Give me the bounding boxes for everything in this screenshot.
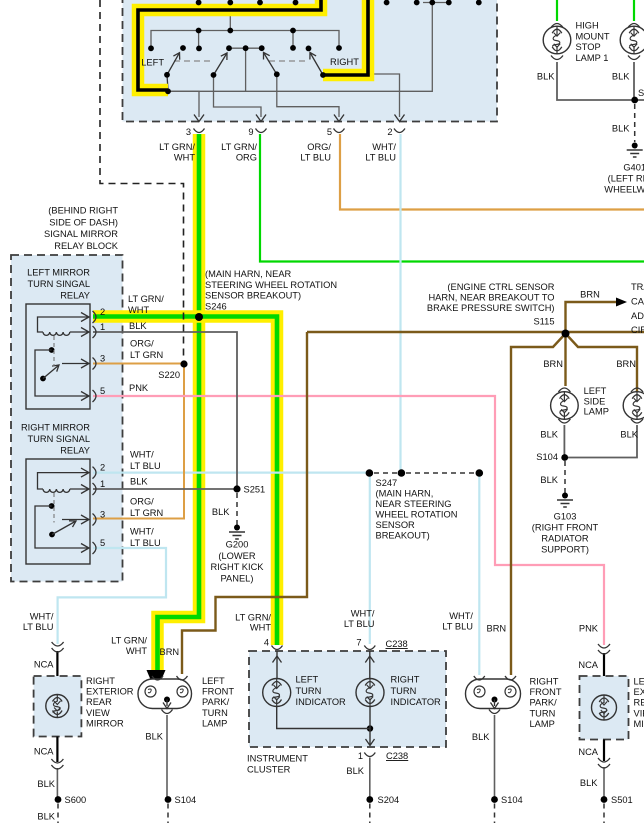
svg-text:ORG: ORG	[236, 153, 257, 163]
svg-text:MIRROR: MIRROR	[86, 718, 124, 728]
svg-text:LEFT MIRROR: LEFT MIRROR	[27, 268, 90, 278]
svg-text:CIRCUITS: CIRCUITS	[631, 325, 644, 335]
svg-text:BRN: BRN	[543, 359, 563, 369]
svg-text:CAMPER: CAMPER	[631, 296, 644, 306]
svg-text:WHT/: WHT/	[30, 612, 54, 622]
svg-text:BLK: BLK	[537, 72, 555, 82]
svg-text:RIGHT MIRROR: RIGHT MIRROR	[21, 423, 90, 433]
svg-text:BRN: BRN	[616, 359, 636, 369]
svg-text:NCA: NCA	[578, 747, 598, 757]
svg-text:NCA: NCA	[34, 660, 54, 670]
svg-text:3: 3	[186, 127, 191, 137]
svg-text:S104: S104	[175, 795, 197, 805]
svg-text:PNK: PNK	[579, 624, 599, 634]
svg-text:LT GRN: LT GRN	[130, 508, 163, 518]
svg-text:PNK: PNK	[129, 383, 149, 393]
svg-text:S: S	[638, 88, 644, 98]
svg-text:BLK: BLK	[580, 778, 598, 788]
svg-text:TURN SINGAL: TURN SINGAL	[27, 279, 90, 289]
svg-text:TURN: TURN	[530, 708, 556, 718]
svg-text:BRN: BRN	[580, 290, 600, 300]
svg-text:LEFT: LEFT	[584, 386, 607, 396]
svg-text:LT BLU: LT BLU	[23, 622, 54, 632]
svg-text:(BEHIND RIGHT: (BEHIND RIGHT	[48, 206, 118, 216]
svg-text:SENSOR: SENSOR	[376, 520, 416, 530]
svg-text:SIDE: SIDE	[584, 396, 606, 406]
svg-text:RIGHT KICK: RIGHT KICK	[210, 562, 264, 572]
svg-text:SIGNAL MIRROR: SIGNAL MIRROR	[44, 229, 118, 239]
svg-text:C238: C238	[386, 751, 408, 761]
svg-text:RELAY: RELAY	[60, 446, 90, 456]
svg-text:9: 9	[248, 127, 253, 137]
svg-text:(LEFT REAR: (LEFT REAR	[608, 174, 644, 184]
svg-text:2: 2	[387, 127, 392, 137]
svg-text:S104: S104	[536, 452, 558, 462]
svg-text:RIGHT: RIGHT	[330, 57, 359, 67]
svg-text:WHT/: WHT/	[130, 527, 154, 537]
svg-text:RIGHT: RIGHT	[391, 675, 420, 685]
svg-text:VIEW: VIEW	[634, 708, 644, 718]
svg-text:RIGHT: RIGHT	[530, 677, 559, 687]
svg-text:LT BLU: LT BLU	[300, 153, 331, 163]
svg-text:REAR: REAR	[634, 698, 644, 708]
svg-text:FRONT: FRONT	[202, 687, 234, 697]
svg-text:RELAY BLOCK: RELAY BLOCK	[54, 241, 119, 251]
svg-text:3: 3	[100, 354, 105, 364]
svg-text:LAMP: LAMP	[584, 407, 609, 417]
svg-text:S600: S600	[65, 795, 87, 805]
svg-text:VIEW: VIEW	[86, 708, 110, 718]
svg-text:S204: S204	[378, 795, 400, 805]
svg-text:S104: S104	[501, 795, 523, 805]
svg-text:1: 1	[100, 479, 105, 489]
svg-text:ORG/: ORG/	[130, 339, 154, 349]
svg-text:S115: S115	[533, 317, 554, 327]
svg-text:STEERING WHEEL ROTATION: STEERING WHEEL ROTATION	[205, 280, 337, 290]
svg-text:INDICATOR: INDICATOR	[296, 697, 347, 707]
svg-text:WHT: WHT	[174, 153, 195, 163]
svg-text:BLK: BLK	[212, 507, 230, 517]
svg-text:BRAKE PRESSURE SWITCH): BRAKE PRESSURE SWITCH)	[427, 303, 555, 313]
svg-text:S247: S247	[376, 478, 398, 488]
svg-text:LT BLU: LT BLU	[130, 538, 161, 548]
svg-text:LT GRN/: LT GRN/	[221, 142, 257, 152]
svg-text:BLK: BLK	[540, 430, 558, 440]
svg-text:LAMP: LAMP	[202, 718, 227, 728]
svg-text:BLK: BLK	[129, 321, 147, 331]
svg-text:1: 1	[100, 322, 105, 332]
svg-text:ORG/: ORG/	[307, 142, 331, 152]
svg-text:G401: G401	[623, 163, 644, 173]
svg-text:BLK: BLK	[620, 430, 638, 440]
svg-text:S220: S220	[158, 370, 180, 380]
svg-text:PARK/: PARK/	[530, 698, 558, 708]
svg-text:NCA: NCA	[34, 747, 54, 757]
svg-text:TURN: TURN	[391, 686, 417, 696]
svg-text:TRAILER: TRAILER	[631, 282, 644, 292]
svg-text:LT BLU: LT BLU	[365, 153, 396, 163]
svg-text:LT BLU: LT BLU	[344, 619, 375, 629]
svg-text:WHT: WHT	[128, 305, 149, 315]
svg-text:EXTERIOR: EXTERIOR	[634, 687, 644, 697]
svg-text:BLK: BLK	[37, 779, 55, 789]
svg-text:BLK: BLK	[612, 124, 630, 134]
svg-text:(LOWER: (LOWER	[218, 551, 255, 561]
svg-text:G200: G200	[226, 540, 249, 550]
svg-text:LAMP: LAMP	[530, 719, 555, 729]
svg-text:WHT/: WHT/	[449, 611, 473, 621]
svg-text:WHT/: WHT/	[351, 609, 375, 619]
svg-text:LT GRN/: LT GRN/	[235, 613, 271, 623]
svg-text:5: 5	[100, 538, 105, 548]
svg-text:S246: S246	[205, 301, 227, 311]
svg-text:LEFT: LEFT	[634, 677, 644, 687]
svg-text:BLK: BLK	[145, 732, 163, 742]
svg-text:BREAKOUT): BREAKOUT)	[376, 531, 430, 541]
svg-text:INDICATOR: INDICATOR	[391, 697, 442, 707]
svg-text:WHT/: WHT/	[372, 142, 396, 152]
svg-text:MIRROR: MIRROR	[634, 719, 644, 729]
svg-text:WHT/: WHT/	[130, 450, 154, 460]
svg-text:HARN, NEAR BREAKOUT TO: HARN, NEAR BREAKOUT TO	[428, 293, 554, 303]
svg-text:CLUSTER: CLUSTER	[247, 765, 291, 775]
svg-text:SENSOR BREAKOUT): SENSOR BREAKOUT)	[205, 291, 301, 301]
svg-text:REAR: REAR	[86, 697, 112, 707]
svg-text:LT GRN/: LT GRN/	[111, 636, 147, 646]
svg-text:S251: S251	[244, 485, 266, 495]
svg-text:ADAPTER: ADAPTER	[631, 311, 644, 321]
svg-text:LT GRN: LT GRN	[130, 350, 163, 360]
svg-text:TURN: TURN	[296, 686, 322, 696]
svg-text:LEFT: LEFT	[141, 58, 164, 68]
svg-text:WHT: WHT	[250, 623, 271, 633]
svg-text:LT BLU: LT BLU	[130, 461, 161, 471]
svg-text:INSTRUMENT: INSTRUMENT	[247, 754, 308, 764]
svg-text:(RIGHT FRONT: (RIGHT FRONT	[532, 523, 599, 533]
svg-text:LAMP 1: LAMP 1	[576, 53, 609, 63]
svg-text:5: 5	[327, 127, 332, 137]
svg-text:PANEL): PANEL)	[221, 573, 254, 583]
svg-text:1: 1	[358, 751, 363, 761]
svg-text:3: 3	[100, 510, 105, 520]
svg-text:4: 4	[264, 638, 269, 648]
svg-text:BRN: BRN	[160, 647, 180, 657]
svg-text:PARK/: PARK/	[202, 697, 230, 707]
svg-text:LT BLU: LT BLU	[442, 622, 473, 632]
svg-text:TURN SIGNAL: TURN SIGNAL	[27, 434, 90, 444]
svg-text:WHEELWELL): WHEELWELL)	[604, 185, 644, 195]
svg-text:LT GRN/: LT GRN/	[128, 294, 164, 304]
svg-text:RELAY: RELAY	[60, 291, 90, 301]
svg-text:BRN: BRN	[487, 624, 507, 634]
svg-text:(MAIN HARN, NEAR: (MAIN HARN, NEAR	[205, 269, 292, 279]
svg-text:7: 7	[356, 638, 361, 648]
svg-text:BLK: BLK	[612, 72, 630, 82]
svg-text:HIGH: HIGH	[576, 21, 599, 31]
svg-text:STOP: STOP	[576, 42, 601, 52]
svg-text:TURN: TURN	[202, 708, 228, 718]
svg-text:(MAIN HARN,: (MAIN HARN,	[376, 489, 434, 499]
svg-text:SIDE OF DASH): SIDE OF DASH)	[49, 217, 118, 227]
svg-text:(ENGINE CTRL SENSOR: (ENGINE CTRL SENSOR	[447, 282, 554, 292]
svg-text:WHEEL ROTATION: WHEEL ROTATION	[376, 510, 458, 520]
svg-text:LEFT: LEFT	[296, 675, 319, 685]
svg-text:EXTERIOR: EXTERIOR	[86, 687, 134, 697]
svg-text:BLK: BLK	[540, 475, 558, 485]
svg-text:MOUNT: MOUNT	[576, 31, 610, 41]
svg-text:BLK: BLK	[472, 732, 490, 742]
svg-text:BLK: BLK	[130, 477, 148, 487]
svg-text:RADIATOR: RADIATOR	[541, 534, 588, 544]
svg-text:SUPPORT): SUPPORT)	[541, 545, 589, 555]
svg-text:FRONT: FRONT	[530, 687, 562, 697]
svg-text:2: 2	[100, 307, 105, 317]
svg-text:LT GRN/: LT GRN/	[159, 142, 195, 152]
svg-text:ORG/: ORG/	[130, 497, 154, 507]
svg-text:NCA: NCA	[578, 660, 598, 670]
svg-text:5: 5	[100, 386, 105, 396]
svg-text:G103: G103	[554, 512, 577, 522]
svg-text:NEAR STEERING: NEAR STEERING	[376, 499, 452, 509]
svg-text:RIGHT: RIGHT	[86, 676, 115, 686]
svg-text:BLK: BLK	[346, 766, 364, 776]
svg-text:LEFT: LEFT	[202, 676, 225, 686]
svg-text:2: 2	[100, 463, 105, 473]
svg-text:WHT: WHT	[126, 646, 147, 656]
svg-text:C238: C238	[386, 639, 408, 649]
svg-text:S501: S501	[611, 795, 633, 805]
svg-text:BLK: BLK	[37, 812, 55, 822]
